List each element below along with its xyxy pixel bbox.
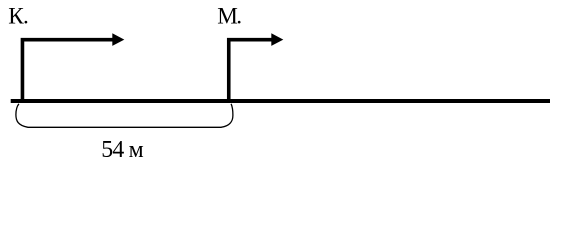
distance bracket <box>16 104 233 128</box>
svg-text:К.: К. <box>8 4 28 30</box>
svg-text:54 м: 54 м <box>101 137 143 163</box>
arrow M (post + shaft) <box>229 40 273 103</box>
arrow K (post + shaft) <box>22 40 114 103</box>
svg-text:М.: М. <box>217 4 241 30</box>
arrow M head <box>271 33 283 46</box>
arrow K head <box>112 33 124 46</box>
road line <box>11 99 550 103</box>
